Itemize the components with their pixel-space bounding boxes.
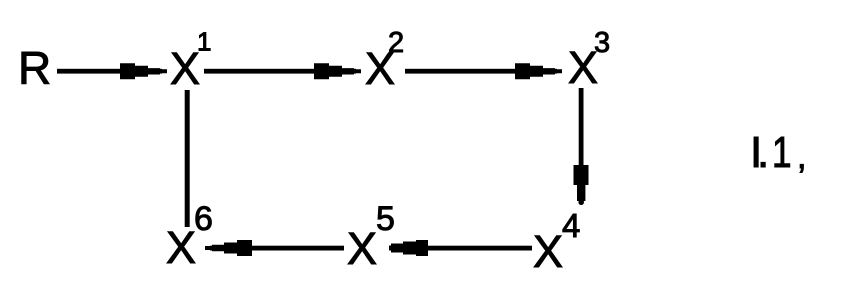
svg-text:R: R xyxy=(18,42,51,94)
svg-text:6: 6 xyxy=(194,200,213,238)
wire arrow X4 to X5 xyxy=(394,246,532,251)
svg-text:X: X xyxy=(347,223,377,274)
wire X1 down to X6 xyxy=(185,90,190,227)
wire arrow X2 to X3 xyxy=(405,69,557,74)
wire arrow X3 down to X4 xyxy=(579,88,584,200)
svg-text:X: X xyxy=(166,222,196,273)
svg-text:5: 5 xyxy=(376,200,395,238)
svg-text:1: 1 xyxy=(197,27,211,57)
svg-text:2: 2 xyxy=(388,27,404,59)
svg-text:,: , xyxy=(797,138,806,176)
svg-text:X: X xyxy=(533,226,563,277)
svg-text:X: X xyxy=(170,43,200,94)
wire arrow X1 to X2 xyxy=(204,69,356,74)
wire arrow R to X1 xyxy=(57,69,162,74)
svg-text:1: 1 xyxy=(772,128,792,177)
svg-text:3: 3 xyxy=(594,27,610,59)
wire arrow X5 to X6 xyxy=(210,246,344,251)
svg-text:.: . xyxy=(757,128,769,177)
svg-text:4: 4 xyxy=(562,207,580,244)
